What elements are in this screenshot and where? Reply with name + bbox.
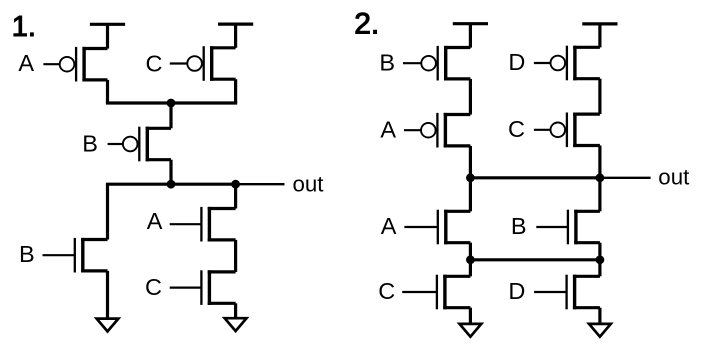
pmos transistor, gate B (circuit 1) [108, 127, 171, 162]
wire: node N2 down to nmos D drain (circuit 2) [598, 260, 601, 277]
svg-text:A: A [381, 213, 397, 239]
wire: nmos A source to nmos C drain (circuit 1) [234, 240, 237, 272]
svg-text:B: B [379, 49, 395, 75]
junction dot: right branch on node N2 (circuit 2) [596, 255, 605, 264]
VDD rail symbol (circuit 2, above pmos D) [582, 24, 617, 48]
pmos transistor, gate B (circuit 2) [403, 46, 470, 81]
svg-text:D: D [508, 278, 525, 304]
nmos transistor, gate B (circuit 1) [43, 238, 108, 273]
wire: pmos A drain down to out node (circuit 2) [469, 146, 472, 178]
wire: out node down to nmos B drain (circuit 1) [106, 184, 109, 239]
ground symbol (circuit 2, under nmos D) [589, 324, 611, 337]
wire: nmos C source down to ground (circuit 2) [469, 308, 472, 324]
pmos transistor, gate C (circuit 2) [534, 113, 600, 148]
junction dot: right branch on out node (circuit 2) [596, 173, 605, 182]
svg-text:D: D [508, 49, 525, 75]
ground symbol (circuit 1, under nmos B) [97, 319, 119, 332]
pmos transistor, gate A (circuit 2) [404, 113, 470, 148]
wire: pmos A drain down to node N1 [106, 80, 109, 103]
wire: node N1 down to pmos B source [169, 103, 172, 128]
wire: nmos B source down to node N2 (circuit 2) [598, 243, 601, 260]
ground symbol (circuit 2, under nmos C) [460, 324, 482, 337]
svg-text:B: B [511, 213, 527, 239]
nmos transistor, gate D (circuit 2) [534, 275, 600, 310]
wire: pmos C drain down to node N1 [234, 79, 237, 103]
pmos transistor, gate D (circuit 2) [534, 46, 600, 81]
svg-text:C: C [508, 116, 525, 142]
svg-text:2.: 2. [354, 7, 379, 40]
nmos transistor, gate A (circuit 2) [404, 210, 470, 245]
ground symbol (circuit 1, under nmos C) [225, 318, 247, 331]
wire: out stub to label (circuit 1) [236, 183, 285, 185]
wire: out node horizontal (circuit 1) [106, 183, 236, 186]
svg-text:C: C [145, 274, 162, 300]
nmos transistor, gate C (circuit 1) [170, 270, 236, 305]
svg-text:C: C [378, 278, 395, 304]
wire: nmos B source down to ground (circuit 1) [106, 271, 109, 319]
wire: pmos C drain down to out node (circuit 2) [598, 146, 601, 178]
wire: nmos C source down to ground (circuit 1) [234, 303, 237, 318]
nmos transistor, gate B (circuit 2) [536, 210, 600, 245]
svg-text:out: out [293, 171, 325, 196]
svg-text:A: A [147, 208, 163, 234]
VDD rail symbol (circuit 1, above pmos A) [90, 24, 125, 48]
svg-text:C: C [146, 51, 163, 77]
junction dot: left branch on out node (circuit 2) [466, 173, 475, 182]
wire: out stub to label (circuit 2) [600, 177, 651, 179]
wire: out node down to nmos B drain (circuit 2) [598, 178, 601, 212]
wire: node N2 horizontal cross-connection (circuit 2) [470, 258, 600, 261]
wire: pmos B drain down to out node [169, 160, 172, 185]
wire: node N1 horizontal (pmos A/C drains to pmos B source) [106, 101, 237, 104]
junction dot on node N1 [167, 99, 176, 108]
wire: out node down to nmos A drain (circuit 2) [469, 178, 472, 212]
wire: pmos D drain to pmos C source (circuit 2) [598, 79, 601, 114]
svg-text:A: A [18, 50, 34, 76]
VDD rail symbol (circuit 1, above pmos C) [218, 24, 253, 48]
nmos transistor, gate A (circuit 1) [170, 207, 236, 242]
svg-text:B: B [19, 241, 35, 267]
wire: nmos A source down to node N2 (circuit 2) [469, 243, 472, 260]
nmos transistor, gate C (circuit 2) [402, 275, 470, 310]
junction dot: left branch on node N2 (circuit 2) [466, 255, 475, 264]
wire: out node horizontal (circuit 2) [470, 176, 600, 179]
junction dot: pmos B drain on out node (circuit 1) [167, 180, 176, 189]
wire: nmos D source down to ground (circuit 2) [598, 308, 601, 324]
pmos transistor, gate C (circuit 1) [170, 46, 236, 81]
svg-text:A: A [380, 116, 396, 142]
junction dot: nmos A drain tap on out node (circuit 1) [231, 180, 240, 189]
wire: out node down to nmos A drain (circuit 1) [234, 184, 237, 208]
pmos transistor, gate A (circuit 1) [43, 47, 107, 82]
svg-text:1.: 1. [12, 11, 36, 43]
svg-text:B: B [82, 130, 98, 156]
svg-text:out: out [658, 164, 690, 189]
wire: node N2 down to nmos C drain (circuit 2) [469, 260, 472, 277]
wire: pmos B drain to pmos A source (circuit 2) [469, 79, 472, 115]
VDD rail symbol (circuit 2, above pmos B) [453, 24, 488, 48]
